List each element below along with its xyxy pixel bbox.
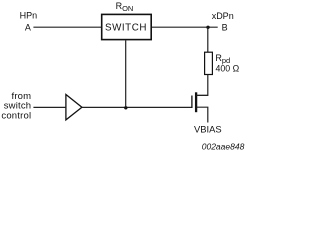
wire control to buffer: [33, 106, 65, 108]
svg-text:SWITCH: SWITCH: [105, 22, 147, 33]
wire switch bottom to control wire: [125, 40, 127, 107]
svg-text:B: B: [222, 23, 228, 33]
wire A to switch: [33, 26, 101, 28]
svg-text:control: control: [1, 111, 31, 122]
transistor M1 source lead: [197, 107, 208, 122]
wire B junction down to resistor: [207, 27, 209, 52]
svg-text:A: A: [25, 23, 31, 33]
svg-text:002aae848: 002aae848: [202, 141, 245, 151]
svg-text:400 Ω: 400 Ω: [216, 64, 240, 74]
wire switch to node B: [152, 26, 218, 28]
svg-text:xDPn: xDPn: [212, 11, 234, 21]
junction dot on control wire: [124, 106, 127, 109]
resistor Rpd: [205, 52, 213, 74]
transistor M1 channel bar: [195, 92, 197, 112]
svg-text:HPn: HPn: [20, 10, 38, 20]
wire buffer to gate: [82, 106, 192, 108]
buffer amp: [66, 95, 82, 120]
transistor M1 drain lead: [197, 94, 208, 96]
transistor M1 gate plate: [191, 96, 193, 109]
wire resistor to transistor drain: [196, 75, 208, 96]
svg-text:VBIAS: VBIAS: [194, 124, 222, 135]
svg-text:RON: RON: [116, 1, 134, 13]
switch box U1: [102, 14, 152, 39]
junction dot at B: [206, 26, 209, 29]
